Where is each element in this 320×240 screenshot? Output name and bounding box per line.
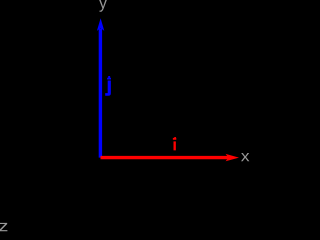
y-axis unit vector j-hat arrow (blue) bbox=[97, 18, 104, 157]
label y (gray axis name, top) bbox=[99, 0, 107, 12]
label j-hat (blue bold) bbox=[105, 76, 111, 96]
label z (gray axis name, bottom-left) bbox=[0, 223, 7, 231]
label x (gray axis name, right) bbox=[241, 153, 249, 161]
x-axis unit vector i-hat arrow (red) bbox=[101, 154, 240, 161]
label i-hat (red bold) bbox=[173, 137, 176, 150]
